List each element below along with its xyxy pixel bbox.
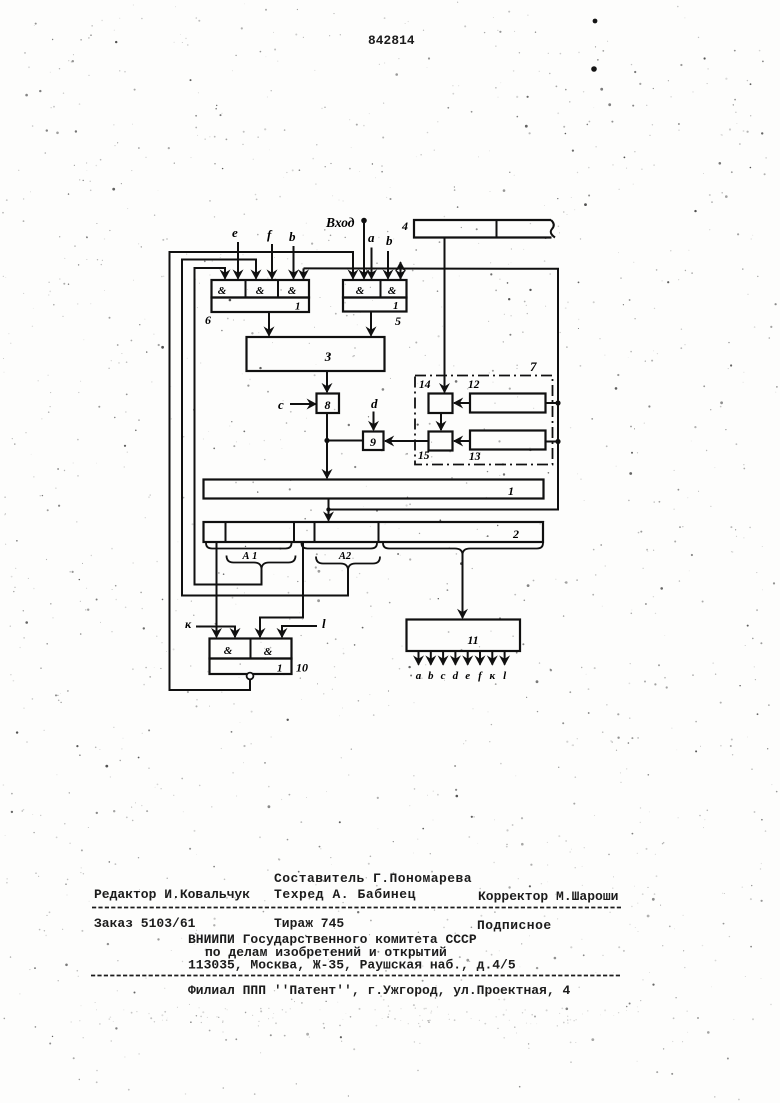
svg-text:1: 1 bbox=[393, 300, 399, 312]
svg-text:&: & bbox=[218, 285, 227, 297]
svg-text:Редактор И.Ковальчук: Редактор И.Ковальчук bbox=[94, 887, 250, 902]
svg-text:d: d bbox=[453, 670, 459, 682]
svg-text:11: 11 bbox=[467, 633, 478, 647]
svg-text:b: b bbox=[289, 229, 296, 244]
svg-text:l: l bbox=[503, 670, 507, 682]
svg-text:15: 15 bbox=[418, 450, 430, 462]
block 8 bbox=[317, 394, 340, 414]
brace A2 bbox=[316, 557, 380, 571]
svg-text:Тираж 745: Тираж 745 bbox=[274, 916, 344, 931]
wire d into block9 bbox=[373, 412, 375, 431]
svg-text:2: 2 bbox=[512, 527, 519, 541]
svg-text:b: b bbox=[428, 670, 434, 682]
wire e input bbox=[237, 242, 239, 279]
wire feedback v3 (from A1 brace to block6 cell1) bbox=[195, 268, 262, 585]
wire block2 cell3 to block10 bbox=[260, 542, 303, 637]
wire к input bbox=[196, 627, 235, 638]
svg-text:e: e bbox=[465, 670, 470, 682]
block 9 bbox=[363, 432, 384, 451]
svg-text:1: 1 bbox=[508, 484, 514, 498]
wire block6 to block3 bbox=[268, 312, 270, 336]
wire block12 to right rail + junction bbox=[546, 402, 559, 404]
block 14 bbox=[429, 394, 453, 414]
wire c into block8 bbox=[290, 403, 316, 405]
svg-text:5: 5 bbox=[395, 314, 401, 328]
svg-text:1: 1 bbox=[277, 663, 283, 675]
wire block8 down to block1 bbox=[326, 413, 328, 478]
svg-text:a: a bbox=[416, 670, 422, 682]
svg-text:&: & bbox=[288, 285, 297, 297]
svg-text:А2: А2 bbox=[338, 551, 352, 562]
svg-text:8: 8 bbox=[325, 398, 331, 412]
block10 output inverter circle bbox=[247, 673, 254, 680]
svg-text:&: & bbox=[224, 645, 233, 657]
wire block4 to block14 bbox=[444, 238, 446, 393]
wire block14 to block15 bbox=[440, 413, 442, 430]
ink blob top right bbox=[593, 19, 598, 24]
svg-text:14: 14 bbox=[419, 379, 431, 391]
svg-text:3: 3 bbox=[324, 349, 332, 364]
wire block5 to block3 bbox=[370, 312, 372, 336]
wire down into block6 cell3 bbox=[303, 268, 305, 278]
svg-text:Филиал ППП ''Патент'', г.Ужгор: Филиал ППП ''Патент'', г.Ужгород, ул.Про… bbox=[188, 983, 570, 998]
brace A1 bbox=[227, 556, 296, 570]
svg-text:4: 4 bbox=[401, 219, 408, 233]
svg-text:e: e bbox=[232, 225, 238, 240]
svg-text:&: & bbox=[256, 285, 265, 297]
wire a input bbox=[371, 248, 373, 279]
svg-text:Техред А. Бабинец: Техред А. Бабинец bbox=[274, 887, 416, 902]
svg-text:Составитель Г.Пономарева: Составитель Г.Пономарева bbox=[274, 871, 472, 886]
wire block9 output to junction bbox=[327, 440, 363, 442]
box 7 dash-dot frame bbox=[415, 376, 553, 465]
dashed rule 1 bbox=[92, 907, 622, 909]
svg-text:c: c bbox=[278, 397, 284, 412]
block 10 AND-gate group bbox=[210, 639, 292, 659]
svg-text:12: 12 bbox=[468, 379, 480, 391]
wire b input left bbox=[293, 246, 295, 279]
wire block13 to block15 bbox=[454, 440, 470, 442]
block 1 bbox=[204, 480, 544, 499]
svg-text:f: f bbox=[267, 227, 273, 242]
wire bracket3 stem to block11 bbox=[462, 553, 464, 618]
wire block5 cell2 up/down arrow bbox=[400, 262, 402, 279]
svg-text:А 1: А 1 bbox=[242, 551, 258, 562]
block 6 AND-gate group bbox=[212, 280, 310, 298]
block 13 bbox=[470, 431, 546, 450]
wire top right rail bbox=[304, 268, 559, 509]
node Вход terminal dot bbox=[361, 218, 367, 224]
svg-text:b: b bbox=[386, 233, 393, 248]
svg-text:113035, Москва, Ж-35, Раушская: 113035, Москва, Ж-35, Раушская наб., д.4… bbox=[188, 958, 516, 973]
wire b input right bbox=[387, 251, 389, 279]
wire Вход input bbox=[363, 223, 365, 279]
svg-text:&: & bbox=[388, 285, 397, 297]
svg-text:10: 10 bbox=[296, 661, 308, 675]
bracket under block2 section1 bbox=[206, 542, 292, 549]
wire feedback v1 (from block10 circle to block5) bbox=[170, 252, 354, 690]
wire block15 to block9 bbox=[385, 440, 429, 442]
wire block13 to right rail + junction bbox=[546, 441, 559, 443]
svg-text:&: & bbox=[264, 646, 273, 658]
svg-text:Подписное: Подписное bbox=[477, 918, 552, 933]
svg-text:6: 6 bbox=[205, 313, 211, 327]
block 2 bbox=[204, 522, 544, 542]
svg-text:Корректор М.Шароши: Корректор М.Шароши bbox=[478, 889, 618, 904]
svg-text:f: f bbox=[478, 670, 483, 682]
svg-text:c: c bbox=[441, 670, 446, 682]
svg-text:Заказ 5103/61: Заказ 5103/61 bbox=[94, 916, 196, 931]
wire f input bbox=[271, 244, 273, 279]
wire l input bbox=[282, 626, 317, 637]
svg-text:842814: 842814 bbox=[368, 33, 415, 48]
svg-text:a: a bbox=[368, 230, 375, 245]
svg-text:9: 9 bbox=[370, 435, 376, 449]
svg-text:l: l bbox=[322, 616, 326, 631]
svg-text:к: к bbox=[185, 617, 192, 631]
wire block1 to block2 bbox=[328, 499, 330, 521]
junction dot bbox=[324, 438, 329, 443]
wire feedback v2 (from A2 brace to block6 cell2) bbox=[182, 260, 348, 596]
svg-text:d: d bbox=[371, 396, 378, 411]
block 11 bbox=[407, 620, 521, 652]
block 4 register bbox=[414, 220, 552, 238]
block11 output arrows a b c d e f к l bbox=[418, 651, 420, 665]
bracket under block2 section2 bbox=[302, 542, 378, 549]
dashed rule 2 bbox=[91, 975, 622, 977]
bracket under block2 section3 with stem bbox=[383, 542, 463, 556]
svg-text:к: к bbox=[490, 670, 496, 682]
svg-text:7: 7 bbox=[530, 359, 537, 374]
svg-text:Вход: Вход bbox=[325, 215, 355, 230]
block 3 bbox=[247, 337, 385, 371]
svg-text:1: 1 bbox=[295, 301, 301, 313]
wire block12 to block14 bbox=[454, 402, 470, 404]
svg-text:13: 13 bbox=[469, 451, 481, 463]
wire block2 cell1 to block10 bbox=[216, 542, 218, 637]
wire block3 to block8 bbox=[326, 371, 328, 392]
block 12 bbox=[470, 394, 546, 413]
svg-text:&: & bbox=[356, 285, 365, 297]
block 5 AND-gate group bbox=[343, 280, 407, 298]
block 15 bbox=[429, 432, 453, 451]
